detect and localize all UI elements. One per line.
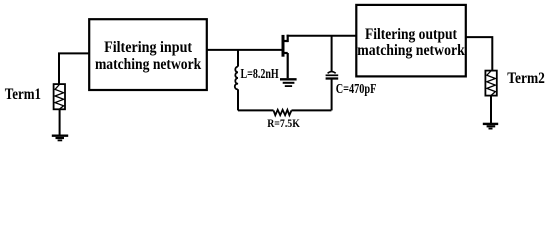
svg-text:matching network: matching network	[357, 42, 465, 59]
svg-text:R=7.5K: R=7.5K	[267, 118, 300, 130]
svg-text:matching network: matching network	[95, 56, 201, 73]
svg-text:Term2: Term2	[507, 70, 545, 87]
svg-text:L=8.2nH: L=8.2nH	[241, 66, 280, 81]
svg-text:Filtering output: Filtering output	[365, 26, 458, 43]
svg-text:Term1: Term1	[5, 86, 41, 103]
svg-text:Filtering input: Filtering input	[104, 39, 193, 56]
svg-text:C=470pF: C=470pF	[336, 81, 377, 96]
